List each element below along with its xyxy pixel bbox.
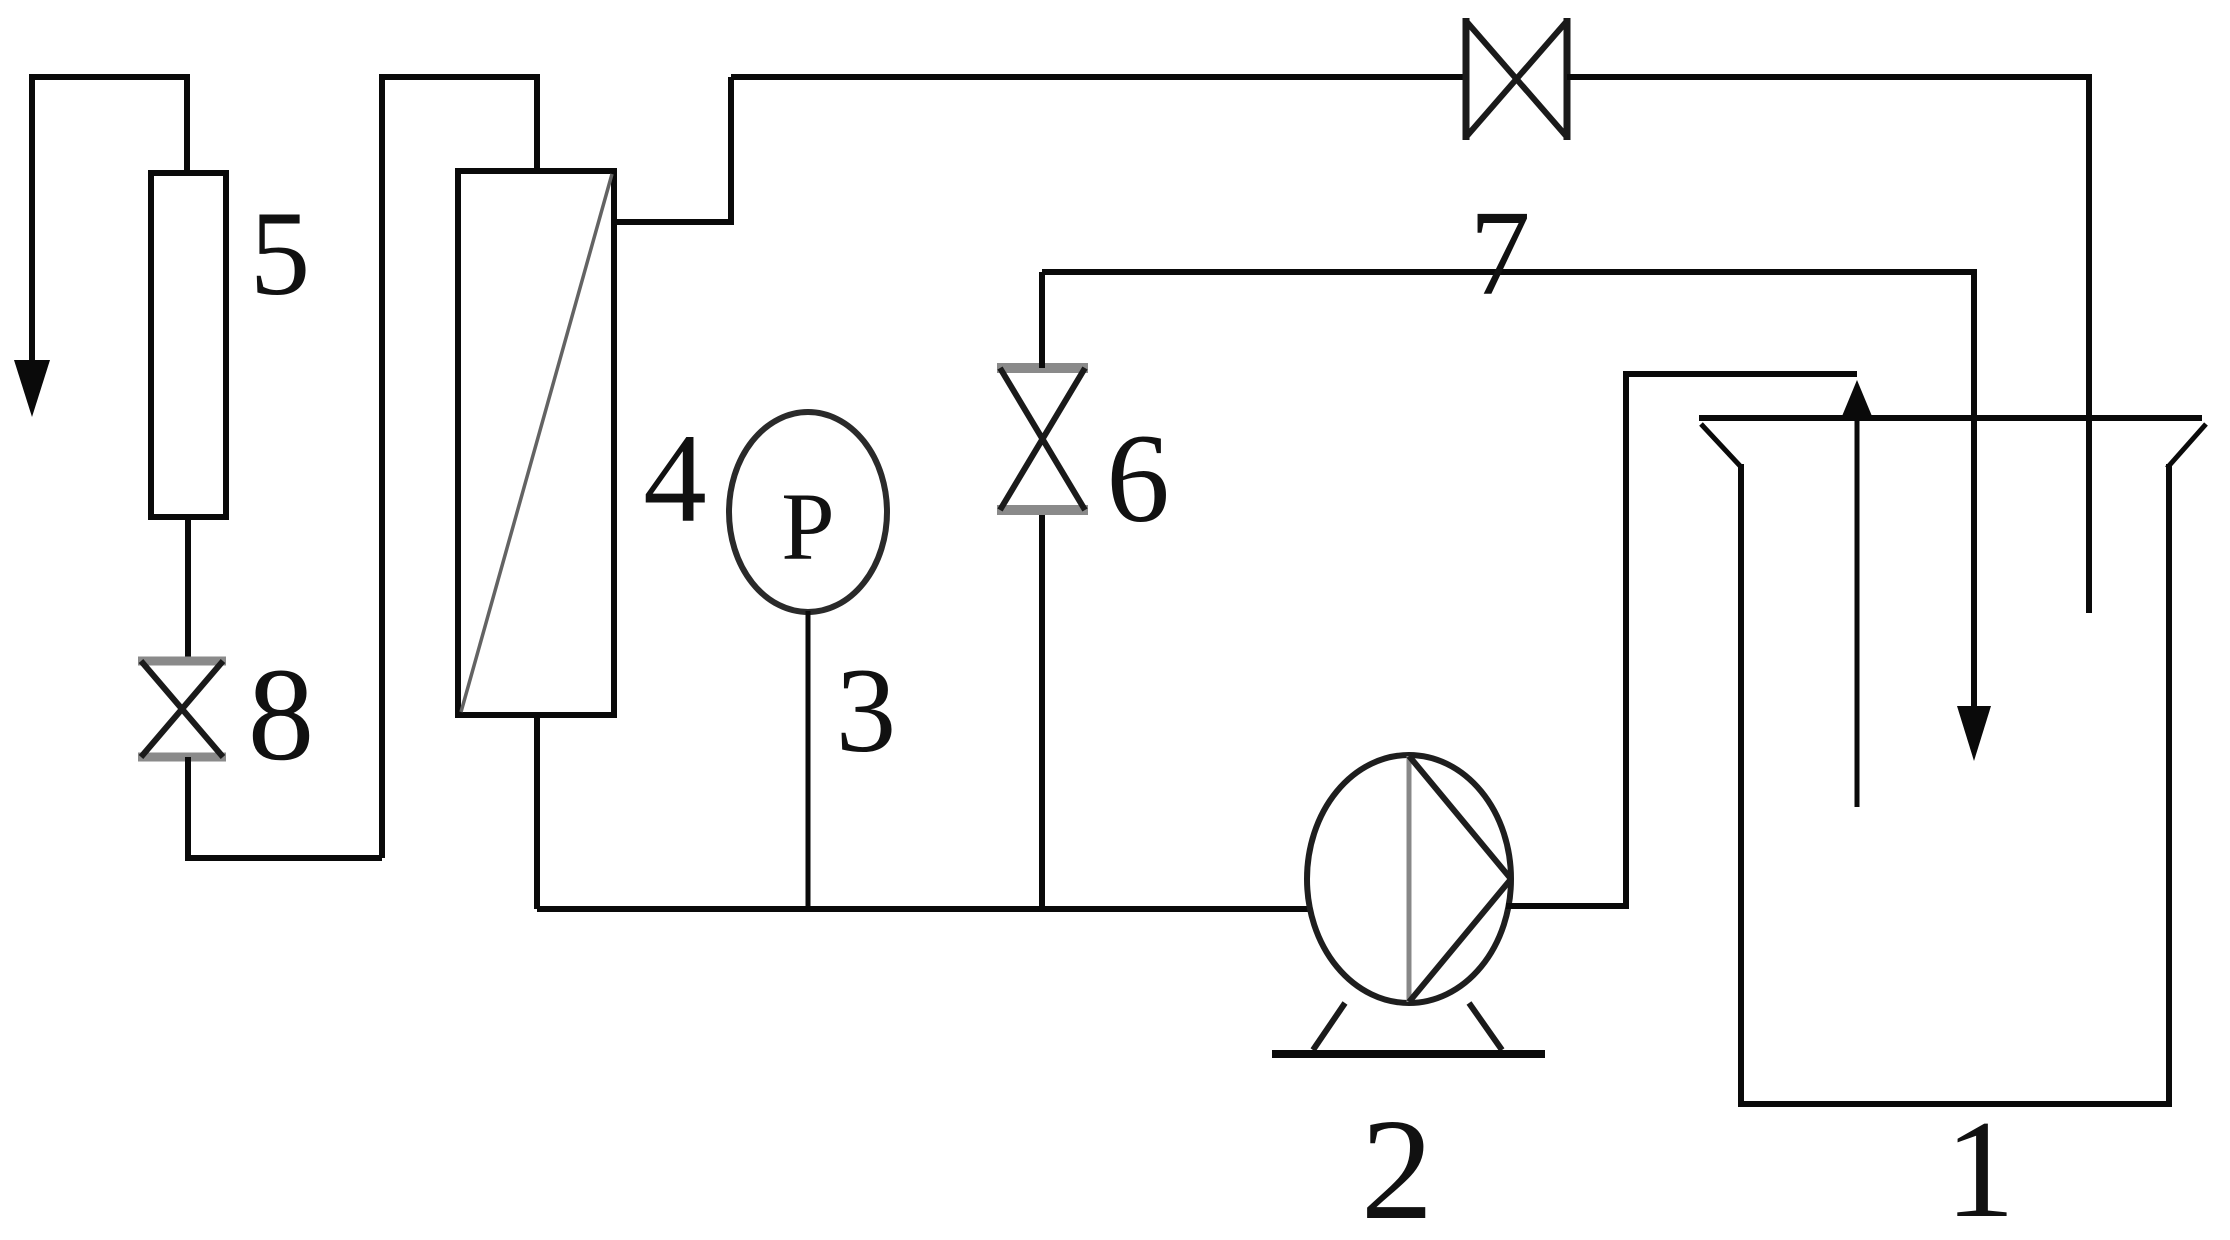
pipe: column 5 to valve 8 [185, 517, 191, 660]
valve 6 [997, 368, 1088, 510]
arrow: permeate outlet down [14, 360, 50, 417]
pipe: dip tube at 1857 [1855, 410, 1860, 807]
pipe: permeate outlet top-left [32, 77, 187, 364]
pressure gauge P [729, 412, 887, 612]
valve 8 [138, 661, 226, 757]
pipe: gauge stem [806, 611, 811, 909]
valve top (bypass) [1466, 18, 1567, 140]
tank 1 right flare [2167, 424, 2206, 468]
pipe: membrane retentate out to top pipe [614, 77, 731, 222]
svg-text:3: 3 [836, 644, 897, 778]
svg-text:8: 8 [248, 640, 315, 788]
pipe: membrane bottom down [534, 713, 540, 909]
svg-text:5: 5 [250, 187, 311, 321]
tank 1 rim [1699, 415, 2202, 421]
column 5 [151, 173, 226, 517]
svg-text:4: 4 [643, 409, 707, 549]
pipe: valve 8 down and right to riser [188, 757, 382, 858]
pipe: top run to valve [731, 74, 1464, 80]
svg-text:6: 6 [1106, 409, 1170, 549]
pipe: riser up to top [382, 77, 537, 858]
pipe: pump discharge up and over [1506, 374, 1857, 906]
svg-text:1: 1 [1945, 1092, 2015, 1240]
arrow: line 7 discharge down [1957, 706, 1991, 761]
pipe: bottom manifold to pump [537, 906, 1310, 912]
pipe: valve 6 up to line 7 [1039, 272, 1045, 368]
pipe: into column 5 [184, 74, 190, 175]
membrane module 4 [458, 171, 614, 715]
pipe: line 7 over to tank [1042, 272, 1974, 708]
svg-text:7: 7 [1470, 186, 1531, 321]
pump 2 [1272, 755, 1545, 1054]
tank 1 left flare [1701, 424, 1742, 468]
pipe: valve to tank downcomer [1567, 77, 2089, 613]
svg-text:P: P [781, 473, 834, 580]
pipe: valve 6 branch up from manifold [1039, 512, 1045, 909]
tank 1 body [1741, 464, 2169, 1104]
arrow: into tank dip tube up [1840, 380, 1874, 421]
svg-text:2: 2 [1361, 1090, 1434, 1240]
